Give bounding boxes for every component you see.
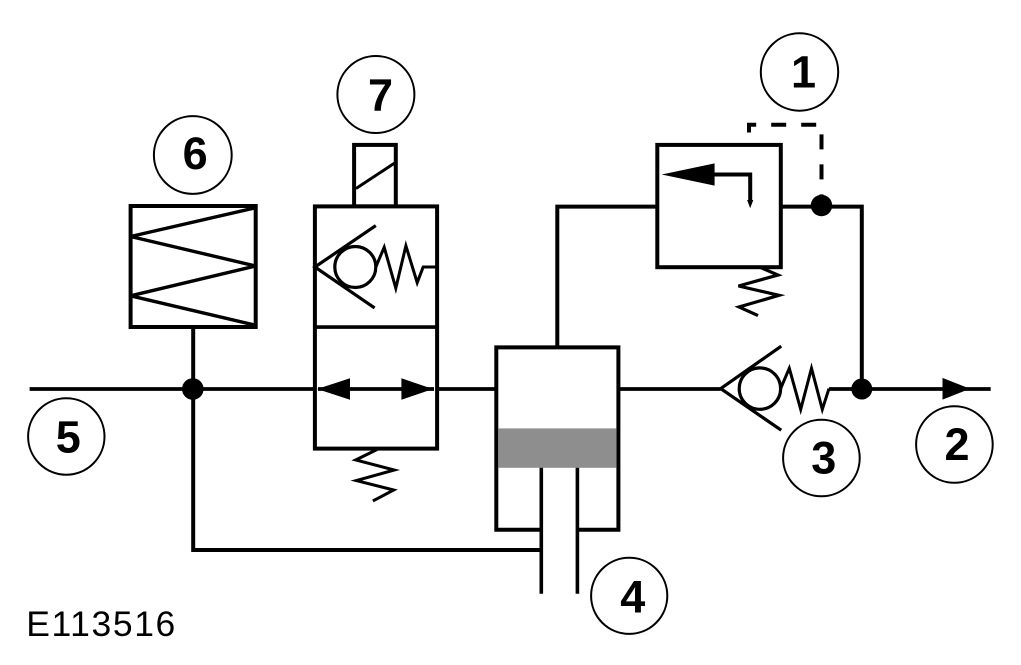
svg-text:2: 2 — [944, 419, 969, 470]
svg-text:1: 1 — [791, 47, 816, 98]
svg-text:5: 5 — [56, 411, 81, 462]
svg-text:E113516: E113516 — [26, 604, 177, 644]
svg-text:7: 7 — [368, 69, 393, 120]
svg-text:3: 3 — [811, 432, 836, 483]
svg-text:6: 6 — [183, 128, 208, 179]
svg-text:4: 4 — [620, 572, 645, 623]
